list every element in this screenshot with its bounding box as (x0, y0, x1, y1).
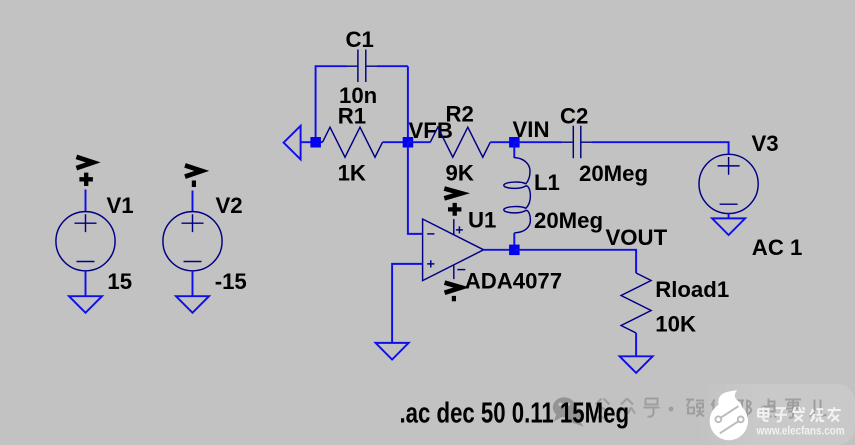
watermark wechat icon (553, 397, 584, 426)
wire C1 right down to VFB (407, 66, 409, 142)
wire Rload1 to ground (635, 333, 637, 356)
svg-text:R2: R2 (446, 102, 474, 127)
inverting input marker (427, 233, 434, 235)
V3 minus marker (720, 203, 738, 205)
net label -V (rotated, drawn) (185, 165, 202, 187)
top power plus marker (456, 226, 463, 233)
wire V2 top lead (192, 191, 194, 212)
net label -V (op-amp bottom, drawn) (445, 283, 462, 302)
node VOUT junction square (509, 245, 519, 256)
wire V2 bottom lead (192, 271, 194, 296)
svg-text:VOUT: VOUT (606, 225, 668, 250)
wire VIN down to L1 (513, 142, 515, 158)
svg-text:ADA4077: ADA4077 (465, 268, 562, 293)
Rload1 zigzag body (621, 273, 651, 333)
svg-text:-15: -15 (215, 269, 247, 294)
R1 zigzag body (323, 127, 383, 157)
svg-text:20Meg: 20Meg (579, 161, 648, 186)
V3 source circle (699, 154, 758, 213)
C1 lead stubs (347, 65, 377, 67)
ground (V3) (712, 218, 745, 235)
wire L1 to output node (513, 233, 515, 250)
svg-text:www.elecfans.com: www.elecfans.com (756, 423, 845, 437)
wire node A up to C1 row (316, 66, 347, 142)
capacitor C1 (339, 27, 408, 108)
wire op-amp output to node (484, 249, 515, 251)
svg-text:V2: V2 (216, 193, 243, 218)
ground (Rload1) (620, 356, 653, 373)
watermark text 电子发烧友 (drawn strokes) (758, 407, 841, 421)
op-amp U1 (423, 189, 563, 302)
wire C2 to V3 (592, 142, 729, 154)
elecfans flame logo (710, 390, 748, 440)
V2 source circle (163, 212, 222, 271)
wire output node to Rload1 (514, 250, 636, 273)
wire R1 to VFB node (383, 141, 408, 143)
wire V1 bottom lead (85, 271, 87, 296)
svg-text:C2: C2 (560, 103, 588, 128)
voltage source V3 (699, 131, 802, 260)
wire R2 to VIN node (490, 141, 514, 143)
svg-text:10K: 10K (655, 312, 696, 337)
inductor L1 (504, 158, 603, 234)
svg-text:V3: V3 (752, 131, 779, 156)
R2 zigzag body (430, 127, 490, 157)
V2 plus marker (182, 214, 204, 232)
triangle body (423, 219, 484, 281)
ground (left of R1, pointing left) (284, 126, 301, 160)
svg-text:1K: 1K (338, 161, 366, 186)
non-inverting input marker (427, 260, 434, 267)
resistor R2 (430, 102, 490, 186)
wire V3 bottom lead (728, 214, 730, 219)
ground (V2) (176, 296, 209, 313)
svg-text:L1: L1 (534, 170, 560, 195)
bottom power minus marker (457, 269, 465, 271)
svg-text:9K: 9K (446, 161, 474, 186)
wire gnd to node A (301, 141, 323, 143)
svg-text:C1: C1 (346, 27, 374, 52)
C2 lead stubs (562, 141, 592, 143)
V1 plus marker (75, 214, 97, 232)
wire VIN to C2 (514, 141, 562, 143)
svg-text:U1: U1 (468, 208, 496, 233)
svg-text:Rload1: Rload1 (655, 277, 729, 302)
wire VFB down to inverting input (408, 142, 423, 234)
svg-text:15: 15 (107, 269, 132, 294)
V1 minus marker (77, 261, 95, 263)
V2 minus marker (184, 261, 202, 263)
capacitor C2 (560, 103, 648, 185)
net label +V (op-amp top, drawn) (444, 189, 461, 216)
node A (junction square) (310, 137, 321, 148)
node VIN (junction square) (509, 137, 519, 148)
wire C1 right lead to corner (377, 65, 408, 67)
svg-text:.ac dec 50 0.11 15Meg: .ac dec 50 0.11 15Meg (400, 397, 630, 429)
svg-text:VIN: VIN (513, 117, 550, 142)
V3 plus marker (718, 157, 740, 175)
ground (op-amp + input) (376, 343, 409, 360)
svg-text:20Meg: 20Meg (534, 208, 603, 233)
bottom power pin stub (453, 265, 455, 279)
resistor R1 (323, 103, 383, 185)
L1 coil body (504, 158, 531, 233)
voltage source V1 (56, 157, 134, 313)
node VFB (junction square) (403, 137, 414, 148)
C2 plates (573, 126, 581, 159)
ground (V1) (69, 296, 102, 313)
watermark gray text 公众号 · 硬件那点事儿 (drawn strokes) (596, 399, 827, 418)
voltage source V2 (163, 165, 247, 312)
net label +V (rotated, drawn) (76, 157, 93, 186)
wire VFB to R2 (408, 141, 430, 143)
svg-text:R1: R1 (338, 103, 366, 128)
wire V1 top lead (85, 190, 87, 212)
svg-text:V1: V1 (107, 193, 134, 218)
resistor Rload1 (vertical) (621, 273, 729, 337)
top power pin stub (453, 219, 455, 235)
wire non-inverting input to ground (392, 264, 423, 343)
svg-text:AC 1: AC 1 (752, 235, 803, 260)
C1 plates (358, 50, 366, 83)
V1 source circle (56, 212, 115, 271)
